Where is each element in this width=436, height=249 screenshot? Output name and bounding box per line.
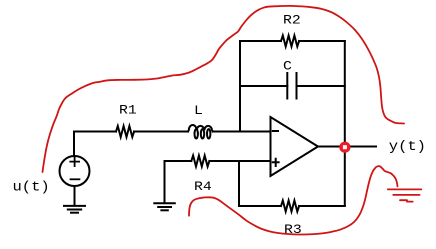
resistor R3 [281, 201, 299, 212]
ground red annotation [388, 189, 422, 201]
svg-text:y(t): y(t) [389, 140, 426, 155]
svg-text:R2: R2 [283, 14, 301, 28]
resistor R4 [191, 156, 209, 167]
wire right rail through node [344, 41, 346, 206]
wire bottom row left [239, 205, 281, 207]
inductor L [188, 125, 213, 139]
wire R4 to op-amp plus input [209, 160, 270, 162]
svg-text:L: L [194, 105, 203, 119]
wire C row left [240, 85, 287, 87]
wire bottom rail left [238, 161, 240, 206]
op-amp U1 [271, 117, 319, 176]
svg-text:R1: R1 [119, 104, 137, 118]
wire C row right [297, 85, 345, 87]
wire top row left [240, 40, 281, 42]
wire left feedback rail [239, 41, 241, 132]
resistor R1 [116, 126, 134, 137]
wire ground corner to R4 [165, 160, 192, 162]
svg-text:R3: R3 [284, 224, 302, 238]
svg-text:C: C [283, 60, 292, 74]
wire L to op-amp minus input [213, 131, 271, 133]
resistor R2 [281, 36, 299, 47]
wire bottom row right [299, 205, 345, 207]
ground at source [64, 206, 85, 213]
capacitor C [287, 73, 296, 99]
voltage source V1 [60, 156, 90, 186]
wire red annotation curve bottom [189, 166, 398, 234]
wire op-amp output to y(t) [318, 146, 376, 148]
wire top row right [299, 40, 345, 42]
svg-text:R4: R4 [194, 181, 212, 195]
ground at R4 [154, 203, 175, 210]
wire red annotation curve left-top-right [43, 6, 405, 172]
wire source top to R1 [74, 132, 116, 156]
node output (red) [339, 142, 350, 153]
wire source bottom to ground [74, 186, 76, 206]
wire R4 ground branch [164, 161, 166, 203]
svg-text:u(t): u(t) [13, 180, 50, 195]
wire R1 to L [134, 131, 188, 133]
